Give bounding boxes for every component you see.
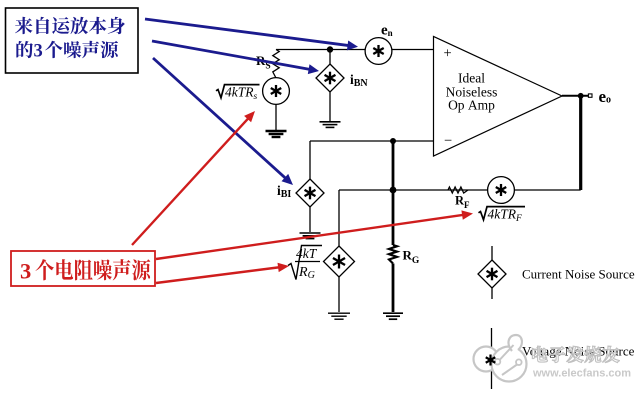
svg-text:www.elecfans.com: www.elecfans.com (532, 368, 631, 380)
svg-text:+: + (444, 46, 452, 62)
svg-text:−: − (444, 133, 452, 149)
svg-text:4kT: 4kT (296, 246, 318, 261)
svg-text:3: 3 (20, 258, 31, 283)
svg-text:Op Amp: Op Amp (448, 97, 495, 112)
svg-text:Current Noise Source: Current Noise Source (522, 267, 635, 282)
svg-text:3: 3 (34, 42, 43, 62)
svg-text:4kTRs: 4kTRs (225, 84, 258, 102)
svg-text:Ideal: Ideal (458, 70, 485, 85)
